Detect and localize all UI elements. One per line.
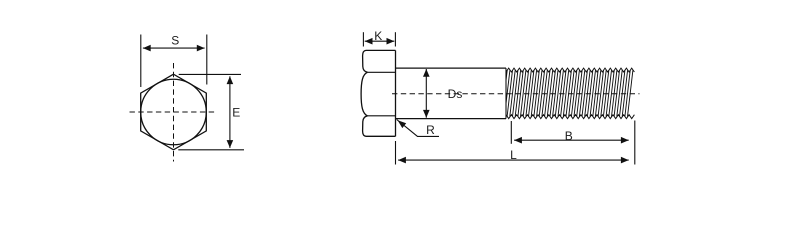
- shank bottom edge: [396, 118, 507, 120]
- dimension E extension lines: [179, 73, 241, 75]
- svg-text:Ds: Ds: [448, 87, 463, 101]
- thread crest zigzag bottom: [506, 115, 634, 119]
- dimension K line: [365, 40, 395, 42]
- thread crest zigzag top: [506, 68, 634, 72]
- svg-text:L: L: [510, 148, 517, 162]
- svg-text:S: S: [171, 33, 179, 47]
- shank top edge: [396, 67, 507, 69]
- dimension S line: [143, 47, 205, 49]
- dimension K extension lines: [362, 32, 364, 46]
- thread flank lines: [506, 70, 633, 116]
- bolt centerline: [392, 93, 640, 95]
- dimension B line: [514, 139, 629, 141]
- hexagon head front view: [141, 74, 207, 150]
- inscribed circle: [141, 79, 207, 145]
- dimension Ds arrow: [425, 69, 427, 118]
- dimension E line: [229, 76, 231, 148]
- dimension L line: [398, 159, 629, 161]
- vertical centerline of hexagon: [173, 63, 175, 162]
- svg-text:E: E: [232, 105, 240, 119]
- dimension B extension line: [510, 121, 512, 144]
- leader R arrow: [398, 120, 407, 128]
- leader R line: [397, 120, 439, 137]
- bolt head side view outline: [363, 50, 396, 72]
- thread runout line: [505, 68, 507, 119]
- head facet lines: [368, 71, 396, 73]
- dimension S extension lines: [140, 35, 142, 88]
- dimension L extension line left: [395, 141, 397, 165]
- svg-text:B: B: [565, 129, 573, 143]
- shared right extension line: [634, 121, 636, 165]
- svg-text:K: K: [374, 29, 382, 43]
- svg-text:R: R: [426, 123, 435, 137]
- horizontal centerline of hexagon: [130, 111, 218, 113]
